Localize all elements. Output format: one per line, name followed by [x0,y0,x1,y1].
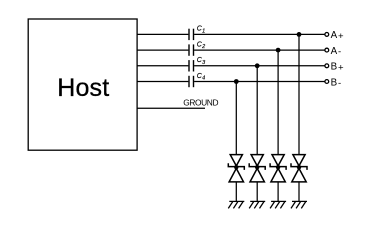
TVS diode D4 [291,155,307,182]
wire B- capacitor to terminal [194,81,325,83]
host block [28,19,137,150]
vertical wire node to TVS diode D1 [235,82,237,155]
vertical wire node to TVS diode D2 [256,66,258,155]
svg-text:Host: Host [57,74,109,102]
terminal A+ [325,33,329,37]
capacitor C1 [189,29,194,40]
svg-text:B-: B- [331,77,342,89]
capacitor C4 [189,76,194,87]
wire TVS diode D3 to ground [277,182,279,202]
wire A+ capacitor to terminal [194,33,325,35]
TVS diode D2 [249,155,265,182]
svg-text:B+: B+ [331,62,344,74]
wire TVS diode D2 to ground [256,182,258,202]
ground wire from host [137,107,205,109]
wire B- host to capacitor [137,81,188,83]
node on B+ wire [255,63,260,68]
svg-text:A+: A+ [331,30,344,42]
vertical wire node to TVS diode D3 [277,50,279,155]
chassis ground 4 [291,201,307,208]
capacitor C2 [189,44,194,55]
terminal B+ [325,64,329,68]
svg-text:A-: A- [331,46,342,58]
wire A+ host to capacitor [137,33,188,35]
vertical wire node to TVS diode D4 [298,34,300,154]
svg-text:GROUND: GROUND [183,98,218,108]
chassis ground 2 [249,201,265,208]
terminal B- [325,80,329,84]
wire TVS diode D1 to ground [235,182,237,202]
wire B+ host to capacitor [137,65,188,67]
chassis ground 3 [270,201,286,208]
TVS diode D3 [270,155,286,182]
wire TVS diode D4 to ground [298,182,300,202]
chassis ground 1 [228,201,244,208]
node on B- wire [234,79,239,84]
wire A- host to capacitor [137,49,188,51]
terminal A- [325,48,329,52]
wire A- capacitor to terminal [194,49,325,51]
node on A+ wire [297,32,302,37]
TVS diode D1 [228,155,244,182]
capacitor C3 [189,60,194,71]
node on A- wire [276,48,281,53]
wire B+ capacitor to terminal [194,65,325,67]
